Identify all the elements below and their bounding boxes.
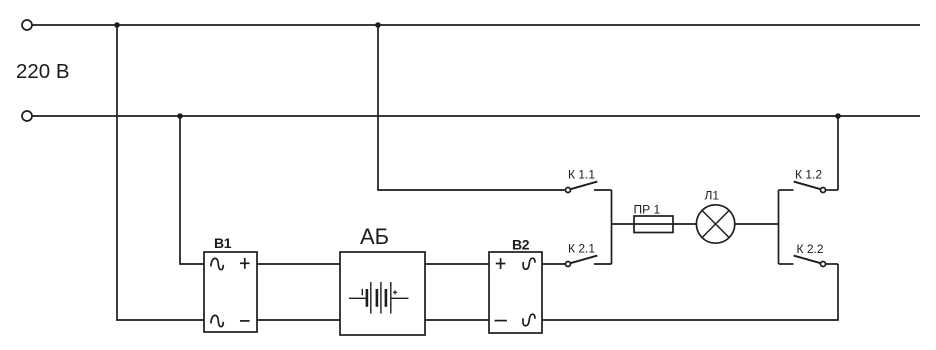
B1 sine symbol bottom — [211, 315, 223, 326]
wire bottom 220V line — [32, 115, 920, 117]
wire bus to fuse — [612, 223, 635, 225]
wire lamp to right bus — [735, 223, 779, 225]
switch K2.2 — [779, 242, 839, 267]
rectifier B1 — [204, 252, 257, 332]
svg-text:К 1.2: К 1.2 — [795, 168, 822, 182]
wire B1 minus to battery — [257, 319, 340, 321]
wire B2 top output to K2.1 — [542, 263, 566, 265]
lamp L1 — [696, 205, 734, 243]
wire from top line down to B1 lower input — [117, 25, 204, 320]
B1 minus — [240, 320, 250, 322]
node junction bottom-left — [177, 113, 183, 119]
switch K1.1 — [566, 168, 612, 193]
fuse PR1 — [634, 223, 673, 225]
wire fuse to lamp — [673, 223, 696, 225]
node junction top-mid — [375, 22, 381, 28]
node junction bottom-right — [835, 113, 841, 119]
wire bus joining K1.1/K2.1 — [611, 190, 613, 264]
battery block AB — [340, 252, 425, 335]
svg-text:Л1: Л1 — [705, 189, 720, 203]
wire K2.2 down and back to B2 bottom — [542, 264, 838, 320]
wire from top line down to switch K1.1 — [378, 25, 566, 190]
svg-text:АБ: АБ — [360, 224, 389, 249]
wire B1 plus to battery — [257, 263, 340, 265]
wire K1.2 up to bottom 220V line — [837, 116, 839, 190]
terminal input top — [22, 20, 32, 30]
B2 sine symbol bottom — [523, 314, 535, 326]
B1 sine symbol top — [211, 258, 223, 269]
wire from bottom line down to B1 upper input — [180, 116, 204, 264]
svg-text:К 2.1: К 2.1 — [568, 242, 595, 256]
switch K1.2 — [779, 168, 839, 193]
svg-text:К 1.1: К 1.1 — [568, 168, 595, 182]
B1 plus — [240, 258, 250, 269]
terminal input bottom — [22, 111, 32, 121]
svg-text:ПР 1: ПР 1 — [634, 203, 661, 217]
wire top 220V line — [32, 24, 920, 26]
switch K2.1 — [566, 242, 612, 267]
inverter B2 — [489, 252, 542, 333]
node junction top-left — [114, 22, 120, 28]
battery symbol — [349, 282, 409, 314]
wire battery to B2 top — [425, 263, 489, 265]
wire bus joining K1.2/K2.2 — [778, 190, 780, 264]
B2 plus — [496, 258, 506, 269]
svg-text:В2: В2 — [512, 237, 530, 253]
svg-text:К 2.2: К 2.2 — [797, 242, 824, 256]
B2 minus — [495, 320, 507, 322]
svg-text:В1: В1 — [214, 235, 232, 251]
B2 sine symbol top — [523, 258, 535, 269]
wire battery to B2 bottom — [425, 319, 489, 321]
svg-text:220 В: 220 В — [16, 60, 70, 83]
